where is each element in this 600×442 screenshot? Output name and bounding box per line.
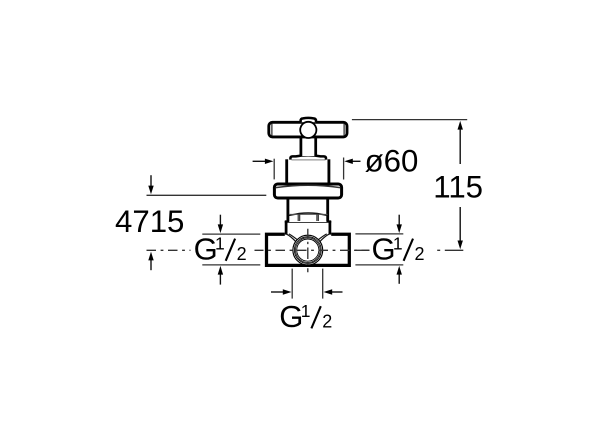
knob circle bbox=[300, 122, 316, 138]
dim G1/2 left fraction slash bbox=[226, 239, 235, 261]
svg-text:1: 1 bbox=[215, 234, 225, 254]
dim 115 up arrow bbox=[458, 121, 463, 130]
stem left side bbox=[300, 138, 303, 157]
handle bar right end line bbox=[343, 124, 345, 136]
nut baseline bbox=[289, 213, 328, 215]
svg-text:1: 1 bbox=[301, 301, 311, 321]
dim G1/2 left text halo bbox=[191, 237, 255, 263]
dim G1/2 right text halo bbox=[370, 237, 430, 263]
port thread circle 1 bbox=[294, 237, 321, 264]
svg-text:115: 115 bbox=[433, 169, 483, 204]
dim G1/2 left up arrow bbox=[219, 274, 221, 285]
svg-text:2: 2 bbox=[415, 244, 425, 264]
dim o60 left arrow bbox=[253, 160, 266, 162]
dim G1/2 bottom fraction slash bbox=[311, 306, 320, 328]
svg-text:ø60: ø60 bbox=[365, 143, 419, 178]
centerline right dash bbox=[445, 249, 464, 251]
dim G1/2 left down arrow bbox=[219, 215, 221, 226]
stem base cap bbox=[290, 155, 326, 159]
dim 115 top extension line bbox=[352, 119, 467, 121]
fillet right (double curve) bbox=[318, 234, 330, 242]
dim G1/2 bottom right arrow bbox=[332, 291, 343, 293]
dim G1/2 right top extension line bbox=[355, 233, 403, 235]
dim G1/2 right fraction slash bbox=[404, 239, 413, 261]
stem fill bbox=[302, 137, 315, 156]
dim 4715 extension line bbox=[147, 194, 267, 196]
flange top arc bbox=[276, 185, 340, 187]
dim G1/2 bottom right extension line bbox=[322, 269, 324, 299]
collar above body bbox=[286, 221, 331, 235]
dim 115 vertical line upper bbox=[459, 127, 461, 165]
stem right side bbox=[314, 138, 317, 157]
centerline right dot bbox=[437, 249, 440, 251]
dim G1/2 bottom left arrow bbox=[271, 291, 284, 293]
dim G1/2 right up arrow bbox=[398, 274, 400, 284]
dim G1/2 right down arrow bbox=[398, 215, 400, 226]
fillet left (double curve) bbox=[286, 234, 298, 242]
svg-text:2: 2 bbox=[237, 244, 247, 264]
bonnet left side bbox=[285, 159, 288, 184]
dim o60 right extension line bbox=[343, 158, 345, 180]
dim 4715 up arrow bbox=[150, 260, 152, 271]
valve body main rectangle bbox=[267, 234, 350, 265]
port thread circle 2 bbox=[295, 238, 320, 263]
flange (escutcheon) bbox=[274, 184, 341, 198]
centerline vertical bbox=[307, 229, 309, 272]
nut facet divider left bbox=[298, 214, 300, 221]
nut facet divider right bbox=[317, 214, 318, 221]
dim o60 left extension line bbox=[273, 159, 275, 180]
bonnet right side bbox=[327, 159, 330, 184]
port bore circle bbox=[297, 239, 319, 261]
neck below flange bbox=[289, 198, 327, 222]
collar top edge bbox=[285, 220, 331, 222]
dim G1/2 left bottom extension line bbox=[202, 264, 260, 266]
nut chamfer profile bbox=[289, 213, 328, 215]
bonnet rectangle bbox=[288, 159, 328, 185]
dim 115 vertical line lower bbox=[459, 207, 461, 241]
handle bar left end line bbox=[271, 124, 273, 136]
dim G1/2 bottom left extension line bbox=[291, 269, 293, 299]
svg-text:4715: 4715 bbox=[115, 204, 184, 239]
port outer circle bbox=[293, 235, 323, 265]
handle bar bbox=[269, 122, 347, 137]
neck left side bbox=[286, 199, 289, 222]
centerline horizontal bbox=[147, 249, 430, 251]
knob cap bbox=[301, 118, 316, 122]
collar left side bbox=[285, 221, 288, 235]
dim G1/2 right bottom extension line bbox=[355, 264, 403, 266]
dim 4715 down arrow bbox=[150, 175, 152, 187]
svg-text:2: 2 bbox=[322, 312, 332, 332]
dim G1/2 left top extension line bbox=[202, 233, 260, 235]
bonnet top thin line bbox=[292, 159, 326, 161]
svg-text:1: 1 bbox=[393, 234, 403, 254]
collar right side bbox=[329, 221, 332, 235]
dim o60 right arrow bbox=[352, 160, 361, 162]
dim 115 down arrow bbox=[458, 241, 463, 250]
centerline right long dash bbox=[355, 249, 369, 251]
neck right side bbox=[326, 199, 329, 222]
